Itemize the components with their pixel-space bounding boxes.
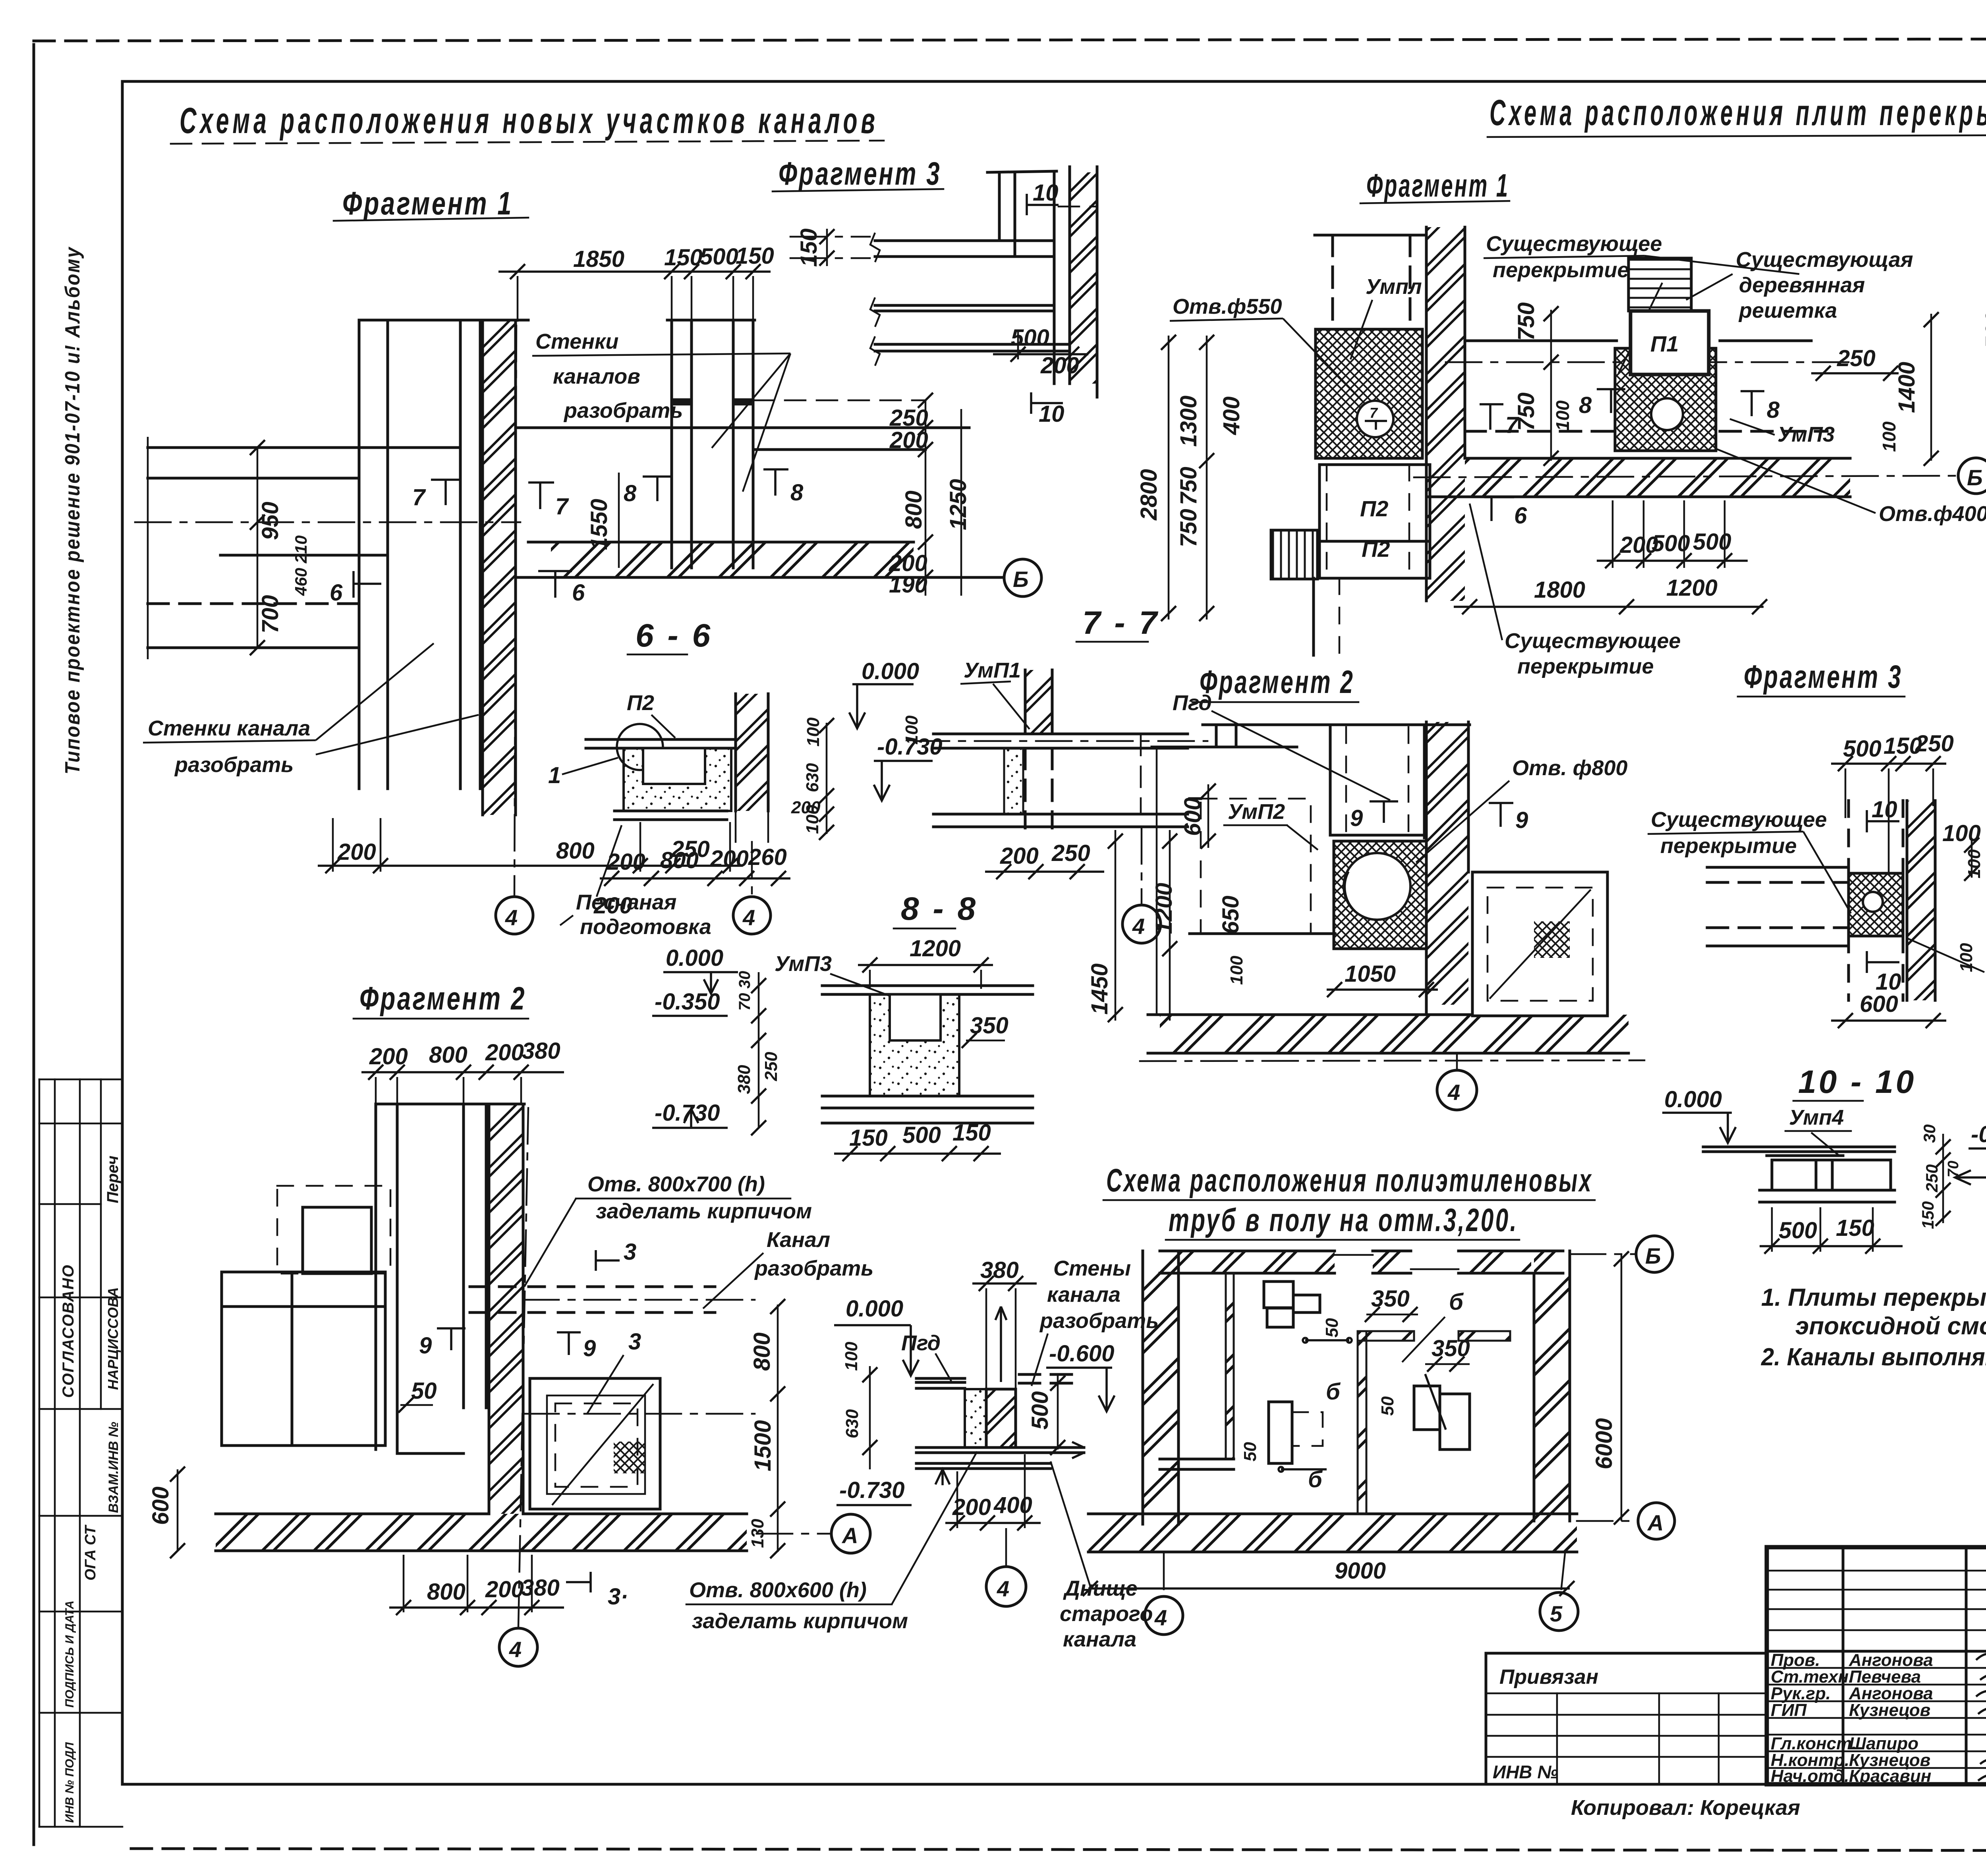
- break arrow on wall axis: [995, 1307, 1007, 1382]
- central hatched wall: [1426, 722, 1468, 1005]
- right slab bottom: [1019, 1446, 1084, 1449]
- svg-text:Умпл: Умпл: [1366, 275, 1422, 299]
- dims 200 400: [945, 1522, 1041, 1524]
- bottom dims 800 200 380: [389, 1606, 564, 1609]
- hatched wall: [1070, 172, 1097, 384]
- floor hatched band: [1465, 458, 1850, 497]
- channel lines right part: [518, 427, 969, 429]
- right dim chain 800 1500 130: [777, 1305, 779, 1552]
- svg-text:600: 600: [148, 1486, 174, 1525]
- canal wall stippled: [1004, 748, 1023, 814]
- svg-text:3: 3: [628, 1329, 641, 1355]
- svg-text:800: 800: [429, 1042, 468, 1068]
- svg-text:ИНВ № ПОДЛ: ИНВ № ПОДЛ: [63, 1742, 76, 1823]
- svg-text:50: 50: [411, 1378, 437, 1404]
- left wall hatched: [1143, 1251, 1178, 1524]
- paper outer left border: [33, 44, 35, 1845]
- svg-text:Типовое проектное решение: Типовое проектное решение 901-07-10 и! А…: [61, 246, 84, 774]
- svg-text:ВЗАМ.ИНВ №: ВЗАМ.ИНВ №: [106, 1422, 121, 1513]
- base lines: [933, 813, 1188, 816]
- svg-text:Песчаная: Песчаная: [576, 890, 676, 914]
- left dim chains: [1168, 336, 1170, 620]
- svg-text:Отв.ф400: Отв.ф400: [1879, 502, 1986, 526]
- section mark 3 upper: [596, 1250, 620, 1271]
- svg-text:250: 250: [1922, 1164, 1941, 1193]
- svg-text:460 210: 460 210: [292, 535, 310, 596]
- svg-text:8 - 8: 8 - 8: [901, 891, 978, 927]
- paper outer top dashed border: [34, 39, 1986, 41]
- base lines: [1760, 1189, 1895, 1192]
- svg-text:заделать кирпичом: заделать кирпичом: [692, 1609, 908, 1633]
- svg-text:Кузнецов: Кузнецов: [1849, 1700, 1930, 1720]
- upper wall pair: [987, 171, 1057, 172]
- svg-text:ОГА СТ: ОГА СТ: [82, 1525, 99, 1581]
- title top-right: Схема расположения плит перекрытия каналов: [1488, 93, 1986, 137]
- left dimension chain 950 700: [257, 448, 259, 648]
- section mark 10 upper: [1027, 194, 1059, 215]
- floor hatched band: [551, 542, 914, 577]
- right wall hatched: [1534, 1251, 1570, 1521]
- svg-text:1250: 1250: [945, 479, 971, 530]
- floor hatched band: [216, 1514, 747, 1551]
- svg-text:800: 800: [427, 1579, 466, 1605]
- svg-text:Существующее: Существующее: [1651, 808, 1827, 832]
- svg-text:70 30: 70 30: [736, 971, 753, 1011]
- slab top lines left: [916, 1377, 965, 1380]
- axis node Б: [1958, 458, 1986, 494]
- dims 200 500 500: [1597, 560, 1748, 562]
- hatched pier: [483, 320, 516, 815]
- top dimension line 1850 150 500 150: [498, 270, 771, 273]
- left margin small table: [39, 1079, 122, 1827]
- svg-text:заделать кирпичом: заделать кирпичом: [596, 1199, 812, 1223]
- title top-left: Схема расположения новых участков каналов: [171, 100, 884, 144]
- svg-text:Пгд: Пгд: [1173, 691, 1212, 715]
- svg-text:260: 260: [748, 844, 787, 870]
- svg-text:500: 500: [1981, 311, 1986, 349]
- axis А: [757, 1533, 830, 1535]
- svg-text:800: 800: [556, 838, 595, 864]
- svg-text:150: 150: [1918, 1201, 1937, 1229]
- dims 1800 1200: [1454, 606, 1764, 608]
- svg-text:ИНВ №: ИНВ №: [1493, 1762, 1558, 1782]
- svg-text:380: 380: [980, 1257, 1019, 1283]
- node circle: [617, 724, 663, 770]
- floor hatched band: [1160, 1015, 1629, 1053]
- svg-text:А: А: [1647, 1510, 1663, 1535]
- svg-text:0.000: 0.000: [666, 945, 723, 971]
- svg-text:100: 100: [902, 715, 922, 745]
- svg-text:А: А: [841, 1523, 858, 1548]
- svg-text:УмП1: УмП1: [964, 658, 1021, 682]
- svg-text:100: 100: [803, 805, 822, 834]
- svg-text:9: 9: [1515, 807, 1528, 833]
- svg-text:Нач.отд.: Нач.отд.: [1771, 1766, 1849, 1786]
- svg-text:650: 650: [1218, 896, 1244, 934]
- axis 4: [518, 1108, 528, 1627]
- svg-text:380: 380: [522, 1038, 560, 1064]
- upper small rows: [1767, 1570, 1986, 1572]
- svg-text:6: 6: [330, 580, 343, 606]
- left wing wall lines: [148, 446, 460, 449]
- svg-text:150: 150: [1836, 1215, 1874, 1241]
- svg-text:Существующая: Существующая: [1736, 248, 1913, 272]
- name rows: [1767, 1667, 1986, 1669]
- svg-text:Б: Б: [1013, 567, 1029, 592]
- svg-text:НАРЦИССОВА: НАРЦИССОВА: [105, 1287, 121, 1390]
- svg-text:630: 630: [803, 763, 822, 792]
- slab beam lines: [875, 239, 1054, 242]
- top dims 200 800 200 380: [361, 1071, 564, 1073]
- slab lines: [933, 733, 1188, 735]
- svg-text:0.000: 0.000: [862, 658, 919, 684]
- svg-text:100: 100: [842, 1341, 861, 1371]
- right dim chain 30 70 250 150: [1942, 1134, 1944, 1223]
- axis 4: [751, 842, 753, 897]
- svg-text:-0.600: -0.600: [1049, 1341, 1114, 1366]
- left dims 600 1200 650 1450 100: [1207, 784, 1209, 848]
- svg-text:7 - 7: 7 - 7: [1082, 605, 1159, 641]
- dims 750 750 100: [1550, 310, 1552, 461]
- wall to remove hatched: [986, 1389, 1016, 1448]
- axis node Б: [1570, 1253, 1636, 1255]
- svg-text:каналов: каналов: [553, 365, 640, 388]
- svg-text:4: 4: [1132, 914, 1145, 939]
- svg-text:250: 250: [1051, 840, 1090, 866]
- dims 500 150 250: [1831, 762, 1946, 765]
- svg-text:200: 200: [337, 839, 376, 865]
- svg-text:8: 8: [1767, 397, 1780, 423]
- section mark 10 lower: [1031, 392, 1063, 414]
- svg-text:Отв. 800x700 (h): Отв. 800x700 (h): [587, 1172, 765, 1196]
- dashed plate box УмП2: [1201, 799, 1311, 934]
- svg-text:200: 200: [710, 846, 749, 872]
- svg-text:разобрать: разобрать: [563, 399, 683, 423]
- svg-text:б: б: [1308, 1467, 1323, 1492]
- svg-text:Существующее: Существующее: [1505, 629, 1681, 653]
- wall top edge: [376, 1103, 524, 1106]
- П2 plate boxes: [1319, 465, 1430, 578]
- svg-text:Привязан: Привязан: [1499, 1666, 1598, 1689]
- svg-text:200: 200: [1040, 353, 1079, 378]
- svg-text:канала: канала: [1047, 1283, 1121, 1307]
- svg-text:600: 600: [1180, 797, 1206, 836]
- svg-text:решетка: решетка: [1738, 299, 1837, 322]
- svg-text:Фрагмент 2: Фрагмент 2: [1200, 664, 1354, 700]
- svg-text:10: 10: [1872, 797, 1897, 822]
- dim 6000: [1621, 1254, 1623, 1521]
- svg-text:800: 800: [749, 1332, 775, 1371]
- svg-text:50: 50: [1322, 1318, 1342, 1338]
- svg-text:200: 200: [889, 427, 928, 453]
- svg-text:1: 1: [548, 762, 561, 788]
- top slab lines: [1203, 724, 1470, 726]
- svg-text:0.000: 0.000: [1664, 1087, 1722, 1112]
- hatched wall right: [736, 694, 768, 811]
- svg-text:750: 750: [1513, 302, 1539, 341]
- svg-text:4: 4: [1154, 1605, 1167, 1630]
- svg-text:500: 500: [700, 244, 738, 270]
- svg-text:Канал: Канал: [767, 1228, 830, 1252]
- svg-text:1800: 1800: [1534, 577, 1585, 603]
- hatched pier: [489, 1104, 523, 1514]
- svg-text:УмП3: УмП3: [775, 952, 832, 976]
- svg-text:Умп4: Умп4: [1789, 1106, 1844, 1129]
- right dim chain 100 630 200 100: [826, 723, 828, 834]
- svg-text:500: 500: [1011, 325, 1049, 351]
- extension lines: [517, 276, 519, 322]
- upper wall verticals: [1847, 801, 1850, 873]
- axis 4: [1163, 1554, 1165, 1596]
- svg-text:СОГЛАСОВАНО: СОГЛАСОВАНО: [60, 1264, 77, 1398]
- svg-text:150: 150: [736, 243, 774, 269]
- rooms: [222, 1272, 385, 1446]
- svg-text:9000: 9000: [1335, 1558, 1386, 1584]
- svg-text:400: 400: [993, 1492, 1032, 1518]
- svg-text:500: 500: [1779, 1218, 1817, 1243]
- П1 box: [1631, 311, 1709, 374]
- svg-text:ПОДПИСЬ И ДАТА: ПОДПИСЬ И ДАТА: [63, 1600, 76, 1708]
- Привязан box: [1486, 1653, 1767, 1784]
- svg-text:8: 8: [790, 480, 804, 506]
- svg-text:500: 500: [1027, 1391, 1053, 1430]
- svg-text:150: 150: [796, 228, 822, 267]
- svg-text:4: 4: [509, 1637, 522, 1662]
- svg-text:-0.730: -0.730: [839, 1477, 904, 1503]
- slab lines: [1707, 866, 1849, 869]
- svg-text:9: 9: [419, 1333, 432, 1359]
- plate Умп3 crosshatched: [1615, 348, 1716, 451]
- svg-text:Фрагмент 1: Фрагмент 1: [342, 185, 513, 222]
- dims 150 500 150: [834, 1152, 1001, 1155]
- dim 9000: [1088, 1587, 1570, 1590]
- wall verticals: [375, 1104, 377, 1449]
- axis 5: [1561, 1554, 1565, 1592]
- svg-text:100: 100: [1552, 400, 1573, 431]
- svg-text:350: 350: [1371, 1286, 1410, 1312]
- svg-text:Стенки канала: Стенки канала: [148, 716, 310, 740]
- svg-text:перекрытие: перекрытие: [1660, 834, 1797, 858]
- svg-text:П2: П2: [1360, 496, 1388, 521]
- base line: [614, 810, 727, 813]
- svg-text:4: 4: [505, 905, 518, 930]
- svg-text:1450: 1450: [1087, 963, 1113, 1015]
- svg-text:1200: 1200: [910, 936, 961, 961]
- svg-text:250: 250: [1915, 731, 1954, 757]
- svg-text:разобрать: разобрать: [754, 1256, 873, 1280]
- wall verticals: [358, 320, 361, 789]
- strip horizontals: [39, 1079, 122, 1081]
- svg-text:750: 750: [1513, 392, 1539, 431]
- svg-text:7: 7: [412, 484, 426, 510]
- far canal wall dashed: [1140, 735, 1142, 814]
- svg-text:канала: канала: [1063, 1627, 1136, 1651]
- svg-text:380: 380: [521, 1575, 560, 1601]
- svg-text:Фрагмент 2: Фрагмент 2: [359, 980, 526, 1017]
- signatures squiggles: [1976, 1652, 1986, 1781]
- svg-text:800: 800: [901, 490, 927, 529]
- svg-text:3: 3: [624, 1239, 636, 1265]
- svg-text:4: 4: [997, 1576, 1009, 1601]
- right hatched wall: [1907, 801, 1935, 1000]
- section mark 6 right: [538, 571, 572, 598]
- mini walls right (channel walls to dismantle): [670, 320, 673, 568]
- svg-text:деревянная: деревянная: [1739, 273, 1865, 297]
- svg-text:750: 750: [1176, 467, 1202, 505]
- interior partition middle: [1358, 1331, 1366, 1514]
- svg-text:600: 600: [1860, 991, 1898, 1017]
- svg-text:-0.730: -0.730: [655, 1100, 720, 1126]
- svg-text:старого: старого: [1060, 1602, 1153, 1626]
- equipment 1: [1264, 1282, 1293, 1308]
- section mark 6: [1484, 497, 1514, 521]
- svg-text:10: 10: [1039, 401, 1064, 427]
- svg-text:1300: 1300: [1176, 396, 1202, 447]
- axis 4 circle: [514, 326, 516, 897]
- bottom floor band: [1088, 1514, 1577, 1552]
- pit right: [1472, 872, 1607, 1016]
- svg-text:4: 4: [742, 905, 755, 930]
- left dim chain 100 630: [869, 1366, 871, 1469]
- svg-text:Схема расположения полиэтилено: Схема расположения полиэтиленовых: [1106, 1162, 1593, 1199]
- wooden grate: [1629, 258, 1691, 311]
- svg-text:разобрать: разобрать: [1039, 1309, 1159, 1333]
- plate Умп2 crosshatched with hole: [1334, 841, 1426, 949]
- dim 600: [177, 1469, 179, 1551]
- svg-text:Стенки: Стенки: [535, 330, 618, 353]
- verticals of name table: [1842, 1547, 1845, 1784]
- svg-text:Копировал: Корецкая: Копировал: Корецкая: [1571, 1796, 1800, 1820]
- svg-text:50: 50: [1240, 1442, 1260, 1461]
- svg-text:6000: 6000: [1591, 1418, 1617, 1469]
- svg-text:3·: 3·: [608, 1584, 628, 1610]
- svg-text:1050: 1050: [1345, 961, 1396, 987]
- top wall hatched: [1160, 1251, 1335, 1273]
- canal concrete U: [624, 748, 731, 811]
- svg-text:1500: 1500: [750, 1420, 776, 1471]
- svg-text:Схема расположения новых: Схема расположения новых участков канало…: [180, 100, 879, 141]
- left edge vertical: [1156, 747, 1158, 1015]
- svg-text:Схема расположения плит пер: Схема расположения плит перекрытия канал…: [1489, 93, 1986, 133]
- svg-text:150: 150: [849, 1125, 888, 1151]
- plan grate below: [1271, 530, 1318, 579]
- svg-text:9: 9: [1350, 805, 1363, 831]
- svg-text:800: 800: [660, 847, 699, 873]
- equipment 3: [1414, 1386, 1440, 1430]
- svg-text:-0.350: -0.350: [655, 989, 720, 1015]
- svg-text:750: 750: [1176, 509, 1202, 547]
- svg-text:перекрытие: перекрытие: [1517, 654, 1654, 678]
- svg-text:9: 9: [583, 1336, 596, 1361]
- title block outer box: [1767, 1547, 1986, 1784]
- bottom dimension line 200 800 250 200: [318, 865, 743, 867]
- svg-text:4: 4: [1447, 1080, 1460, 1105]
- slab lines: [586, 738, 736, 741]
- svg-text:Фрагмент 1: Фрагмент 1: [1366, 168, 1509, 204]
- svg-text:380: 380: [734, 1065, 754, 1094]
- svg-text:подготовка: подготовка: [580, 915, 711, 939]
- paper outer bottom dashed border: [131, 1849, 1986, 1851]
- axis 4: [1141, 828, 1143, 905]
- svg-text:200: 200: [1000, 843, 1039, 869]
- svg-text:Б: Б: [1967, 465, 1983, 490]
- svg-text:УмП3: УмП3: [1777, 423, 1835, 446]
- svg-text:П2: П2: [627, 691, 654, 715]
- channel box: [1772, 1160, 1891, 1190]
- dim 1400 right: [1930, 314, 1932, 461]
- axis node А: [1577, 1520, 1638, 1522]
- slab lines: [1703, 1146, 1895, 1148]
- left dim chain 70 30 250 380: [758, 972, 760, 1128]
- svg-text:2800: 2800: [1136, 469, 1162, 521]
- dims 500 150: [1760, 1245, 1903, 1247]
- central hatched wall: [1426, 227, 1465, 601]
- svg-text:250: 250: [1837, 345, 1876, 371]
- svg-text:Красавин: Красавин: [1849, 1766, 1931, 1786]
- svg-text:1200: 1200: [1666, 575, 1717, 601]
- svg-text:УмП2: УмП2: [1228, 800, 1285, 824]
- svg-text:Днище: Днище: [1063, 1577, 1138, 1600]
- svg-text:400: 400: [1219, 396, 1244, 435]
- dim 150 left: [826, 229, 828, 266]
- svg-text:250: 250: [761, 1052, 781, 1081]
- base lines: [822, 1095, 1033, 1098]
- svg-text:1850: 1850: [573, 246, 624, 272]
- svg-text:200: 200: [369, 1044, 408, 1069]
- right dimension stack 250 200 800 1250 200 190: [925, 400, 927, 596]
- svg-text:6: 6: [572, 580, 585, 606]
- svg-text:200: 200: [485, 1040, 524, 1065]
- svg-text:Стены: Стены: [1053, 1256, 1131, 1280]
- upper cell with dashed columns: [1329, 727, 1332, 835]
- svg-text:-0.350: -0.350: [1971, 1121, 1986, 1147]
- hole dashes and removed canal walls: [470, 1285, 715, 1288]
- existing slab dashed lines: [1466, 340, 1617, 342]
- interior partition left: [1226, 1273, 1234, 1459]
- section mark 10 upper: [1867, 810, 1899, 832]
- plate Умп1 crosshatched: [1316, 329, 1422, 458]
- svg-text:200: 200: [485, 1577, 524, 1602]
- svg-text:П2: П2: [1362, 537, 1390, 562]
- dim 500 right: [1057, 1374, 1059, 1449]
- svg-text:Пгд: Пгд: [901, 1331, 941, 1355]
- svg-text:разобрать: разобрать: [174, 753, 294, 777]
- axis 4: [1456, 1054, 1458, 1070]
- plate Умп4 crosshatched: [1849, 873, 1903, 936]
- svg-text:Фрагмент 3: Фрагмент 3: [1744, 659, 1903, 695]
- hole Отв ф400: [1651, 398, 1683, 430]
- lower wall verticals: [1847, 936, 1850, 1000]
- svg-text:30: 30: [1920, 1124, 1939, 1143]
- svg-text:эпоксидной смолой ЭД-5.: эпоксидной смолой ЭД-5.: [1795, 1312, 1986, 1340]
- axis node Б: [1004, 559, 1041, 596]
- svg-text:500: 500: [902, 1122, 941, 1148]
- svg-text:Фрагмент 3: Фрагмент 3: [779, 156, 941, 192]
- svg-text:150: 150: [952, 1120, 991, 1146]
- svg-text:500: 500: [1693, 529, 1731, 555]
- svg-text:2. Каналы выполнять из кисл: 2. Каналы выполнять из кислотоупорного б…: [1761, 1343, 1986, 1371]
- svg-text:б: б: [1326, 1379, 1341, 1405]
- section circle 7: [1357, 401, 1393, 437]
- equipment 2: [1269, 1402, 1292, 1463]
- svg-text:500: 500: [1843, 736, 1882, 762]
- svg-text:труб в полу на отм.3,200.: труб в полу на отм.3,200.: [1169, 1202, 1518, 1238]
- svg-text:100: 100: [1965, 849, 1984, 878]
- svg-text:630: 630: [842, 1409, 862, 1438]
- svg-text:5: 5: [1550, 1601, 1563, 1626]
- svg-text:150: 150: [664, 245, 703, 270]
- svg-text:100: 100: [1227, 955, 1246, 985]
